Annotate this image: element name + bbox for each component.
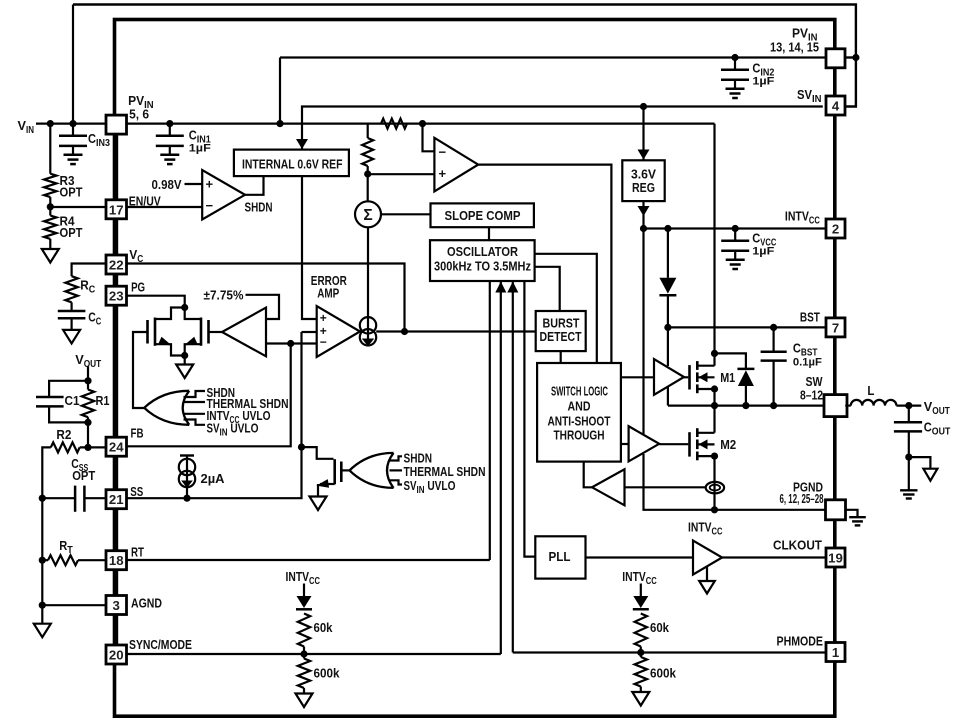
wire PG drain cross top <box>155 308 185 320</box>
svg-text:24: 24 <box>109 440 124 455</box>
wire oscillator to PLL input <box>524 281 535 557</box>
wire oscillator to switch logic <box>535 254 597 363</box>
junction BST CBST <box>770 324 777 331</box>
junction M1 drain / body diode <box>711 350 718 357</box>
svg-text:PHMODE: PHMODE <box>777 634 824 649</box>
ground COUT branch triangle <box>909 457 931 469</box>
wire M2 source to PGND <box>713 456 715 510</box>
svg-text:PG: PG <box>131 280 145 295</box>
svg-text:6, 12, 25–28: 6, 12, 25–28 <box>780 491 824 506</box>
pin 3 AGND <box>106 596 127 615</box>
svg-text:DETECT: DETECT <box>540 329 582 344</box>
wire SW rail <box>668 405 825 407</box>
resistor RC <box>72 264 106 277</box>
junction SW / M1-M2 <box>711 402 718 409</box>
junction BST node <box>664 324 671 331</box>
junction SW / CBST <box>770 402 777 409</box>
pin column 22-23 <box>114 274 118 287</box>
wire SHDN comparator output to reference <box>245 176 264 195</box>
junction summing node <box>364 170 371 177</box>
op-amp U-PWM current comparator <box>434 138 478 192</box>
svg-text:60k: 60k <box>650 620 670 635</box>
pin 24 FB <box>106 437 127 456</box>
svg-text:R2: R2 <box>56 427 71 442</box>
svg-text:PLL: PLL <box>549 549 571 564</box>
svg-text:AMP: AMP <box>317 286 339 301</box>
wire OR input THERMAL SHDN <box>185 401 206 403</box>
wire R2 to ground rail <box>42 447 51 498</box>
wire VIN rail stub to PVIN 13,14,15 pin <box>844 56 856 58</box>
ground clkout buffer <box>706 567 708 582</box>
svg-text:SS: SS <box>130 484 143 499</box>
pin 1 PHMODE <box>826 643 845 662</box>
summing element SIGMA <box>355 201 381 227</box>
IC boundary outline <box>115 20 835 717</box>
svg-text:+: + <box>206 177 214 192</box>
or-gate U-PGOR 4-input <box>144 391 189 425</box>
junction R1/C1 bottom <box>84 419 91 426</box>
svg-text:THERMAL SHDN: THERMAL SHDN <box>404 464 486 479</box>
wire window comparator to left gate <box>209 331 223 333</box>
svg-text:CLKOUT: CLKOUT <box>773 538 822 553</box>
svg-text:L: L <box>867 383 874 398</box>
ground below PG stage <box>184 356 186 365</box>
junction SS / 2uA <box>183 495 190 502</box>
wire EN/UV pin to comparator - <box>126 206 202 208</box>
pin PVIN 13,14,15 <box>826 49 845 68</box>
block BURST DETECT <box>536 311 586 351</box>
wire sigma to gm output stage <box>367 227 369 317</box>
wire AGND pin <box>42 604 106 606</box>
wire PHMODE riser to oscillator <box>512 281 514 653</box>
wire VOUT to divider <box>87 367 89 381</box>
arrowhead PHMODE riser <box>507 282 518 293</box>
diode D-BST bootstrap <box>667 229 669 278</box>
block SWITCH LOGIC AND ANTI-SHOOT THROUGH <box>537 363 621 462</box>
svg-text:−: − <box>320 335 327 349</box>
wire ground rail RT to AGND <box>41 560 43 605</box>
pin 7 BST <box>826 318 845 337</box>
wire reverse comparator output to switch logic <box>584 462 592 488</box>
wire PWM comparator output to switch logic <box>478 165 611 363</box>
junction R3/R4/EN divider node <box>49 197 51 215</box>
junction COUT ground node <box>905 454 912 461</box>
svg-text:SYNC/MODE: SYNC/MODE <box>129 637 192 652</box>
wire M1 driver output to gate <box>684 376 688 378</box>
wire left PG gate to OR gate <box>133 332 148 408</box>
junction FB / window comparator <box>287 340 294 347</box>
wire error amp output to burst detect <box>376 330 536 332</box>
pin 18 RT <box>106 551 127 570</box>
wire OR2 input SHDN <box>389 456 403 460</box>
svg-text:17: 17 <box>109 202 124 217</box>
svg-text:SW: SW <box>806 374 823 389</box>
wire clamp gate to OR gate <box>341 469 349 471</box>
wire SYNC/MODE horizontal <box>126 653 501 655</box>
capacitor CIN3 <box>72 124 74 136</box>
wire clkout buffer to CLKOUT pin <box>722 556 825 558</box>
wire INTVCC supply to M2 driver <box>642 229 644 435</box>
svg-text:M1: M1 <box>720 370 735 385</box>
buffer U-DRV2 M2 gate driver <box>629 426 660 461</box>
svg-text:OSCILLATOR: OSCILLATOR <box>447 244 518 259</box>
wire VIN horizontal (PVIN 5,6 power rail) <box>36 122 715 124</box>
pin 20 SYNC/MODE <box>106 645 127 664</box>
junction FB external <box>84 444 91 451</box>
resistor R-sense on VIN rail <box>381 119 407 129</box>
svg-text:FB: FB <box>131 426 144 441</box>
resistor R3 (OPT) <box>49 124 51 174</box>
transistor Q-SHDN clamp FET <box>333 459 336 484</box>
wire PVIN 13,14,15 net horizontal <box>280 56 826 58</box>
pin 23 PG <box>106 286 127 305</box>
arrowhead SYNC riser <box>495 282 506 293</box>
pin SW 8-12 <box>824 395 847 417</box>
op-amp U-PG window comparator <box>222 308 266 357</box>
block OSCILLATOR <box>430 240 535 281</box>
pin column 24-21 <box>114 456 118 490</box>
svg-text:21: 21 <box>109 492 124 507</box>
svg-text:ANTI-SHOOT: ANTI-SHOOT <box>548 414 611 429</box>
wire PG source cross bottom <box>155 344 185 355</box>
block 3.6V REG <box>622 160 664 201</box>
junction VIN rail / PVIN pin <box>852 54 859 61</box>
svg-text:EN/UV: EN/UV <box>129 194 161 209</box>
svg-text:23: 23 <box>109 289 124 304</box>
wire M1 source to SW <box>713 389 715 406</box>
svg-text:22: 22 <box>109 258 124 273</box>
op-amp U-RCMP reverse current comparator <box>592 469 625 505</box>
pin 19 CLKOUT <box>826 548 845 567</box>
wire RT riser to oscillator <box>489 281 491 560</box>
ground below clamp FET <box>310 497 327 511</box>
junction VIN/CIN1 <box>166 120 173 127</box>
wire INTVCC rail <box>644 227 827 229</box>
wire FB external <box>80 446 106 448</box>
wire BST to M1 driver supply <box>667 327 669 366</box>
block INTERNAL 0.6V REF U-REF <box>234 150 349 177</box>
inductor L <box>845 405 851 407</box>
wire sigma to slope comp <box>381 213 431 215</box>
svg-text:±7.75%: ±7.75% <box>204 288 244 303</box>
capacitor CVCC <box>734 229 736 241</box>
svg-text:18: 18 <box>109 553 124 568</box>
wire to PWM comparator + <box>368 173 435 175</box>
ground below CC <box>63 330 80 344</box>
arrows PG sources <box>158 337 172 345</box>
junction INTVCC CVCC <box>732 225 739 232</box>
capacitor C1 branch <box>49 381 88 397</box>
svg-text:13, 14, 15: 13, 14, 15 <box>770 40 819 55</box>
pin 2 INTVCC <box>826 219 845 238</box>
block PLL <box>535 536 585 578</box>
wire EN/UV to divider <box>50 206 106 208</box>
wire burst detect to switch logic <box>560 351 562 363</box>
svg-text:600k: 600k <box>650 666 677 681</box>
pin PVIN 5,6 <box>106 115 127 134</box>
svg-text:C1: C1 <box>65 393 80 408</box>
pin 17 EN/UV <box>106 200 127 219</box>
wire reverse comparator input <box>625 486 706 488</box>
svg-text:0.1µF: 0.1µF <box>793 357 822 369</box>
wire switch logic to M1 driver <box>621 376 654 378</box>
svg-text:OPT: OPT <box>60 225 83 240</box>
wire OR input INTVCC UVLO <box>185 413 206 415</box>
transistor M2 bottom NMOS <box>688 432 691 456</box>
wire 3.6V reg output to INTVCC <box>642 201 644 228</box>
capacitor CBST <box>772 327 774 351</box>
junction SVIN to 3.6V reg <box>640 103 647 110</box>
wire M1 drain to PVIN rail <box>713 124 715 366</box>
resistor R1 <box>87 381 89 390</box>
block SLOPE COMP <box>431 203 534 227</box>
svg-text:600k: 600k <box>314 666 341 681</box>
wire OR2 input SVIN UVLO <box>389 480 403 484</box>
svg-text:3: 3 <box>113 598 120 613</box>
transistor M1 top NMOS <box>688 365 691 389</box>
wire OR input SVIN UVLO <box>184 420 206 425</box>
wire M2 driver return to PGND <box>644 454 827 510</box>
capacitor COUT <box>908 406 910 423</box>
wire 0.98V to comparator + <box>185 183 203 185</box>
transistor Q-PG left pull <box>146 320 149 344</box>
wire 7.75% threshold to window comparator <box>246 295 280 319</box>
pin 4 SVIN <box>826 96 845 115</box>
junction VIN/CIN3 <box>69 120 76 127</box>
junction SS / clamp FET <box>298 444 305 451</box>
svg-text:BST: BST <box>800 309 820 324</box>
node VIN top rail wire <box>73 5 856 107</box>
svg-text:SVIN UVLO: SVIN UVLO <box>404 478 456 496</box>
svg-text:OPT: OPT <box>72 468 95 483</box>
wire FB node to window comparator input <box>266 342 291 344</box>
junction PGND / M2 <box>711 506 718 513</box>
junction VIN rail to PVIN 13-15 wire riser <box>276 120 283 127</box>
wire summing node to sigma adder <box>367 174 369 201</box>
wire sense to PWM comparator - <box>423 124 435 152</box>
pin PGND 6,12,25-28 <box>826 500 846 520</box>
wire SS riser lower <box>126 447 301 498</box>
svg-text:1µF: 1µF <box>189 142 211 154</box>
wire RT pin to oscillator riser <box>126 559 490 561</box>
capacitor CIN2 <box>734 58 736 70</box>
ground COUT bars <box>908 457 910 490</box>
svg-text:OPT: OPT <box>60 185 83 200</box>
svg-text:AGND: AGND <box>131 596 162 611</box>
wire OR input SHDN <box>184 391 206 397</box>
svg-text:SVIN UVLO: SVIN UVLO <box>207 421 259 439</box>
op-amp U-EA error amp <box>317 306 360 357</box>
svg-text:+: + <box>320 311 327 325</box>
capacitor CIN1 <box>169 124 171 136</box>
pin column 3-20 <box>114 615 118 646</box>
svg-text:INTERNAL 0.6V REF: INTERNAL 0.6V REF <box>242 157 343 172</box>
wire SVIN internal rail <box>302 107 823 150</box>
svg-text:1µF: 1µF <box>752 76 774 88</box>
diode D-M1 body diode <box>715 353 746 369</box>
svg-text:1: 1 <box>832 645 839 660</box>
or-gate U-SSOR 3-input <box>350 453 394 488</box>
wire VC pin to error amp output <box>126 264 404 332</box>
wire SYNC/MODE riser to oscillator <box>500 281 502 654</box>
wire switch logic to M2 driver <box>621 443 629 445</box>
svg-text:−: − <box>439 144 447 159</box>
pin column upper segment <box>114 134 118 200</box>
pin column 18-3 <box>114 570 118 596</box>
wire FB to error amp - input <box>126 344 317 447</box>
buffer U-DRV1 M1 gate driver <box>654 359 684 395</box>
junction INTVCC boot diode <box>664 225 671 232</box>
resistor vertical to summing node <box>367 124 369 138</box>
junction M2 source lead <box>711 453 718 460</box>
junction ground rail / CSS <box>39 495 46 502</box>
svg-text:SHDN: SHDN <box>245 200 273 215</box>
gm output current stage <box>360 317 376 333</box>
wire slope comp to oscillator <box>488 227 490 240</box>
current source I-SS 2uA <box>186 456 188 460</box>
wire 3.6V reg input <box>642 107 644 160</box>
op-amp U-EN shutdown comparator <box>202 170 245 220</box>
svg-text:SWITCH LOGIC: SWITCH LOGIC <box>551 383 608 398</box>
svg-text:RT: RT <box>131 545 144 560</box>
junction PG drain node <box>181 304 188 311</box>
wire PHMODE horizontal <box>513 651 826 653</box>
svg-text:+: + <box>439 166 447 181</box>
svg-text:SLOPE COMP: SLOPE COMP <box>445 208 521 223</box>
wire OR2 input THERMAL SHDN <box>390 469 403 471</box>
junction body diode / SW <box>742 402 749 409</box>
resistor R4 (OPT) <box>44 216 56 239</box>
junction VC node on output <box>401 328 408 335</box>
transistor Q-PG right pull <box>207 320 210 344</box>
junction sense resistor right <box>419 120 426 127</box>
svg-text:2: 2 <box>832 222 839 237</box>
pin column 23-24 <box>114 305 118 438</box>
wire divider to FB <box>87 422 89 447</box>
svg-text:R1: R1 <box>96 393 110 408</box>
pin 21 SS <box>106 490 127 509</box>
svg-text:5, 6: 5, 6 <box>129 107 149 122</box>
svg-text:Σ: Σ <box>363 207 372 224</box>
svg-text:300kHz TO 3.5MHz: 300kHz TO 3.5MHz <box>434 259 531 274</box>
svg-text:4: 4 <box>832 99 840 114</box>
wire M2 drain to SW <box>713 406 715 433</box>
junction VOUT/C1/R1 <box>84 377 91 384</box>
wire ground rail CSS to RT <box>41 498 43 560</box>
junction VIN/R3 <box>47 120 54 127</box>
junction CIN2 <box>731 54 738 61</box>
svg-text:0.98V: 0.98V <box>152 177 182 192</box>
junction ground rail / RT <box>39 557 46 564</box>
svg-text:60k: 60k <box>314 620 334 635</box>
wire BST rail <box>668 326 826 328</box>
ground below R4 <box>49 239 51 249</box>
svg-text:THROUGH: THROUGH <box>554 427 605 442</box>
wire VIN rail drop to VIN node <box>72 5 74 124</box>
svg-text:−: − <box>206 198 214 213</box>
pin 22 VC <box>106 255 127 274</box>
wire PG pin to pull stage drains <box>126 296 185 308</box>
wire SS riser to error amp <box>300 332 302 447</box>
buffer U-CLK clkout driver <box>693 541 722 575</box>
wire clamp FET source to ground <box>320 483 335 485</box>
ground AGND rail <box>41 605 43 624</box>
wire clamp FET drain <box>302 447 334 459</box>
capacitor CC <box>70 302 72 311</box>
svg-text:20: 20 <box>109 648 124 663</box>
wire PLL output to clkout buffer <box>586 556 694 558</box>
wire M1 driver return to SW <box>667 387 669 406</box>
svg-text:REG: REG <box>632 180 655 195</box>
ground PGND external <box>845 510 857 517</box>
wire M2 driver output to gate <box>659 443 688 445</box>
svg-text:AND: AND <box>568 399 591 414</box>
svg-text:19: 19 <box>828 551 843 566</box>
wire riser to PVIN 13,14,15 net <box>279 58 281 124</box>
wire SS to error amp + input <box>302 331 317 333</box>
junction PG source node <box>181 352 188 359</box>
svg-text:M2: M2 <box>720 437 736 452</box>
wire reference output to error amp + <box>302 176 317 319</box>
junction INTVCC reg output <box>640 225 647 232</box>
svg-text:8–12: 8–12 <box>800 388 823 403</box>
junction M1 source lead <box>711 385 718 392</box>
junction ground rail / AGND <box>39 602 46 609</box>
current sense ring on M2 source <box>706 482 724 493</box>
svg-text:2µA: 2µA <box>201 471 225 486</box>
svg-text:1µF: 1µF <box>752 245 774 257</box>
arrowhead into 0.6V reference <box>296 139 308 149</box>
pin column 21-18 <box>114 509 118 552</box>
junction VOUT output <box>905 402 912 409</box>
wire oscillator to burst detect <box>535 267 560 311</box>
svg-text:7: 7 <box>832 320 839 335</box>
